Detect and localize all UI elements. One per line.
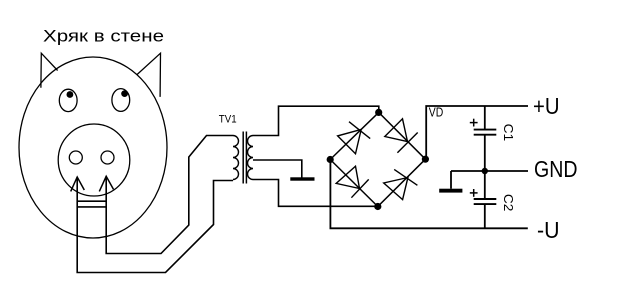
wire: GND rail <box>451 170 528 172</box>
diode VD lower-left <box>336 166 369 198</box>
node: bridge top <box>375 109 382 116</box>
node: bridge bottom <box>374 203 381 210</box>
node: GND junction <box>482 168 488 174</box>
wire: plug right lead to TV1 primary top <box>106 136 233 254</box>
svg-text:GND: GND <box>534 156 578 182</box>
pig left ear <box>41 53 58 88</box>
plug right prong (arrow into nostril) <box>99 176 113 191</box>
capacitor C1 <box>474 130 497 135</box>
wire: bridge left-bottom diagonal <box>330 160 378 207</box>
pig left eye <box>59 89 77 111</box>
svg-text:C1: C1 <box>501 124 516 142</box>
diode VD lower-right <box>384 169 418 199</box>
ground (secondary center tap) <box>290 177 314 180</box>
ground (output common) <box>439 189 462 193</box>
wire: GND rail to C2 <box>484 171 486 199</box>
svg-text:TV1: TV1 <box>219 113 237 125</box>
C2 polarity + <box>470 189 478 197</box>
node: bridge right <box>422 156 429 163</box>
svg-text:Хряк в стене: Хряк в стене <box>43 27 164 45</box>
wire: C2 to -U rail <box>484 204 486 228</box>
TV1 primary winding <box>233 136 239 180</box>
wire: bridge right node up to +U rail <box>425 106 528 159</box>
svg-text:-U: -U <box>537 217 560 243</box>
pig head outline <box>19 57 167 238</box>
diode VD upper-left <box>338 122 371 154</box>
svg-text:C2: C2 <box>501 194 516 212</box>
svg-text:+U: +U <box>533 93 560 119</box>
pig right ear <box>137 53 160 97</box>
pig right eye <box>112 89 130 112</box>
wire: plug left lead to TV1 primary bottom <box>77 177 233 273</box>
wire: secondary top to bridge top node <box>253 106 379 135</box>
wire: bridge left-top diagonal <box>330 112 379 159</box>
C1 polarity + <box>470 119 478 127</box>
capacitor C2 <box>474 199 497 204</box>
wire: +U rail to C1 <box>484 106 486 129</box>
wire: bridge top-right diagonal <box>379 112 426 159</box>
wire: secondary center tap to ground <box>253 160 302 178</box>
pig snout (wall socket) <box>58 124 130 196</box>
TV1 secondary winding <box>248 136 254 180</box>
wire: bridge bottom-right diagonal <box>378 159 426 206</box>
node: bridge left <box>327 156 334 163</box>
nostril right (socket hole) <box>101 151 114 164</box>
nostril left (socket hole) <box>69 151 82 164</box>
wire: bridge left node down to -U rail <box>330 160 527 229</box>
wire: GND rail to ground symbol <box>450 171 452 189</box>
plug left prong (arrow into nostril) <box>71 177 85 191</box>
TV1 core <box>243 132 246 184</box>
diode VD upper-right <box>385 119 418 153</box>
wire: secondary bottom to bridge bottom node <box>253 180 378 207</box>
svg-text:VD: VD <box>429 106 444 120</box>
wire: C1 to GND rail <box>484 135 486 171</box>
plug body bars <box>77 201 106 207</box>
